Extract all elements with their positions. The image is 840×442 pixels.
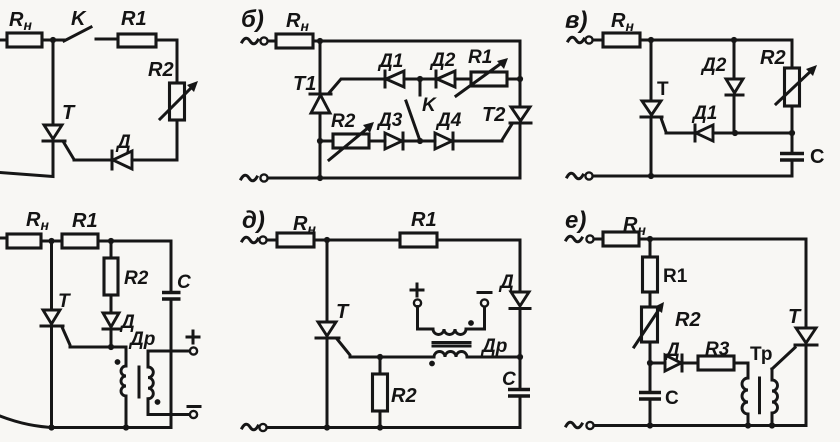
svg-text:Rн: Rн	[26, 209, 49, 233]
wire terminal to Rn	[594, 238, 603, 241]
left vertical wire	[650, 40, 653, 101]
AC source symbol ~ top	[568, 37, 584, 43]
svg-text:K: K	[422, 95, 437, 116]
variable resistor R2	[634, 292, 664, 363]
resistor Rн	[7, 234, 41, 248]
resistor Rн (load)	[7, 33, 42, 47]
left vertical wire	[326, 240, 329, 322]
node junction right top	[517, 76, 523, 82]
node junction C/Д	[647, 360, 653, 366]
wire R2 to Д3	[369, 140, 385, 143]
node junction gate/choke	[108, 344, 114, 350]
diode Д3	[385, 133, 403, 149]
node junction bottom	[648, 173, 654, 179]
left vertical wire	[50, 241, 53, 310]
svg-text:Rн: Rн	[611, 10, 634, 34]
svg-text:Д2: Д2	[429, 50, 456, 71]
capacitor C branch	[162, 241, 181, 428]
svg-text:Rн: Rн	[286, 10, 309, 34]
plus terminal circle	[190, 347, 197, 354]
diode Д1	[695, 125, 713, 141]
terminal circle top	[586, 235, 593, 242]
variable resistor R2	[776, 40, 817, 152]
node junction bottom R2	[377, 424, 383, 430]
minus terminal circle	[481, 299, 488, 306]
minus terminal circle	[190, 411, 197, 418]
top wire to C branch	[98, 240, 171, 243]
wire diode to gate	[74, 159, 112, 162]
switch K stub and blade	[406, 79, 420, 138]
polarity dot lower winding	[429, 361, 435, 367]
svg-text:Др: Др	[128, 329, 155, 350]
terminal circle bottom	[585, 172, 592, 179]
node junction bottom C	[647, 422, 653, 428]
node junction gate/right	[517, 354, 523, 360]
thyristor T	[316, 322, 434, 428]
node junction R2	[377, 354, 383, 360]
diode Д2	[726, 40, 743, 133]
choke core lines	[433, 343, 470, 347]
resistor R2	[104, 241, 118, 295]
resistor Rн	[603, 33, 640, 47]
svg-text:R2: R2	[675, 309, 701, 331]
thyristor T2	[502, 107, 531, 178]
wire terminal to Rn	[267, 239, 277, 242]
svg-text:Rн: Rн	[623, 214, 646, 238]
node junction top Д2	[731, 37, 737, 43]
terminal circle bottom	[586, 422, 593, 429]
variable resistor R2	[160, 81, 198, 120]
node junction top-left	[324, 237, 330, 243]
gate line to right vertical	[467, 356, 520, 359]
resistor R2	[373, 357, 388, 428]
top wire to right side	[313, 40, 520, 43]
svg-text:T: T	[58, 291, 71, 312]
resistor R1	[643, 239, 658, 292]
svg-text:Д: Д	[498, 272, 514, 293]
variable resistor R2	[329, 122, 374, 160]
svg-text:T: T	[657, 79, 669, 100]
AC source symbol ~ bottom	[566, 422, 582, 428]
bottom wire from left edge	[0, 416, 171, 428]
AC source symbol ~ top	[242, 38, 258, 44]
terminal circle top	[260, 37, 267, 44]
terminal circle top	[585, 36, 592, 43]
svg-text:T1: T1	[293, 73, 316, 95]
plus terminal circle	[414, 299, 421, 306]
resistor Rн	[277, 233, 314, 247]
transformer Тр left winding	[742, 378, 748, 426]
svg-text:T: T	[62, 102, 76, 124]
resistor R1	[118, 34, 156, 47]
diode Д	[103, 295, 119, 347]
minus sign	[478, 291, 491, 294]
wire from left edge to Rn	[0, 237, 8, 240]
choke Др upper winding	[418, 307, 485, 335]
choke Др right winding	[148, 351, 190, 415]
node junction left top	[317, 38, 323, 44]
svg-text:R2: R2	[760, 47, 786, 69]
AC source symbol ~ bottom	[241, 175, 257, 181]
resistor Rн	[276, 34, 313, 48]
wire Д4 to T2 gate	[453, 140, 502, 143]
resistor R1	[62, 234, 98, 248]
svg-text:R2: R2	[391, 385, 417, 407]
wire R2 down to bottom	[132, 120, 177, 160]
svg-text:C: C	[810, 146, 824, 168]
terminal circle bottom	[260, 174, 267, 181]
svg-text:Др: Др	[480, 336, 507, 357]
thyristor T	[41, 310, 111, 428]
polarity dot upper winding	[468, 320, 474, 326]
svg-text:C: C	[665, 388, 679, 409]
svg-text:R2: R2	[124, 268, 149, 289]
diode Д	[112, 151, 132, 169]
wire R1 to right corner	[156, 40, 177, 83]
svg-text:Д1: Д1	[691, 103, 717, 124]
diode Д1	[385, 71, 404, 87]
node junction upper K	[417, 76, 423, 82]
transformer Тр right winding	[772, 369, 778, 426]
terminal circle top	[259, 236, 266, 243]
wire terminal to Rn	[593, 39, 603, 42]
wire switch to R1	[96, 38, 118, 41]
svg-text:Rн: Rн	[9, 9, 32, 33]
thyristor T	[641, 101, 695, 176]
thyristor T	[795, 239, 817, 426]
resistor R3	[698, 356, 734, 370]
bottom wire	[267, 426, 520, 429]
svg-text:в): в)	[565, 7, 588, 34]
AC source symbol ~ top	[242, 237, 258, 243]
node junction bottom T	[324, 424, 330, 430]
svg-text:R3: R3	[705, 339, 730, 360]
svg-text:Д2: Д2	[700, 55, 727, 76]
plus sign	[411, 284, 423, 296]
svg-text:R1: R1	[121, 8, 147, 30]
choke Др lower winding on gate line	[434, 352, 467, 357]
switch K blade	[64, 27, 91, 41]
AC source symbol ~ bottom	[567, 173, 583, 179]
svg-text:R1: R1	[468, 47, 492, 68]
wire node to choke	[111, 347, 126, 366]
svg-text:C: C	[177, 272, 191, 293]
choke Др left winding	[121, 366, 126, 396]
node junction bottom left winding	[745, 422, 751, 428]
svg-text:Д4: Д4	[435, 110, 462, 131]
capacitor C	[639, 363, 661, 426]
svg-text:T: T	[336, 301, 350, 323]
wire below T to left edge	[0, 141, 53, 177]
node junction bottom	[317, 175, 323, 181]
wire Rn to node	[42, 39, 64, 42]
wire R3 to transformer	[734, 363, 748, 378]
svg-text:Д: Д	[664, 340, 680, 361]
capacitor C	[508, 390, 530, 428]
node junction bottom T	[48, 424, 54, 430]
wire Д to R3	[682, 362, 698, 365]
svg-text:Д: Д	[115, 132, 131, 153]
transformer core	[758, 378, 761, 413]
svg-text:C: C	[502, 369, 516, 390]
node junction top-left	[648, 37, 654, 43]
node junction	[50, 37, 56, 43]
AC source symbol ~ bottom	[242, 424, 258, 430]
svg-text:Д1: Д1	[377, 51, 403, 72]
wire node to R2	[320, 140, 333, 143]
left vertical wire	[319, 41, 322, 95]
thyristor T1	[310, 79, 385, 178]
svg-text:Rн: Rн	[293, 213, 316, 237]
plus sign	[187, 331, 199, 343]
top wire	[640, 39, 792, 42]
variable resistor R1	[456, 58, 508, 96]
resistor Rн	[603, 232, 639, 246]
wire terminal to Rn	[268, 40, 276, 43]
node junction left	[48, 238, 54, 244]
choke core	[138, 367, 141, 397]
wire left winding to bottom	[125, 396, 128, 428]
svg-text:R1: R1	[663, 266, 688, 287]
gate wire winding to T	[772, 348, 795, 370]
diode Д4	[435, 133, 453, 149]
svg-text:R2: R2	[331, 111, 356, 132]
capacitor C	[780, 154, 804, 177]
bottom wire	[594, 424, 806, 427]
diode Д	[650, 355, 682, 371]
terminal circle bottom	[259, 424, 266, 431]
minus sign	[188, 405, 200, 408]
thyristor T	[43, 40, 74, 160]
node junction bottom winding	[123, 424, 129, 430]
wire Rn to R1	[41, 240, 62, 243]
right vertical wire top	[519, 240, 522, 292]
node junction top	[647, 236, 653, 242]
wire Д2 to R1	[455, 78, 471, 81]
top wire	[314, 239, 520, 242]
AC source symbol ~ top	[566, 236, 582, 242]
wire R1 to right vertical	[507, 78, 520, 81]
node junction R2 top	[108, 238, 114, 244]
node junction lower-left branch	[317, 138, 323, 144]
wire from left edge to Rn	[0, 39, 8, 42]
svg-text:R1: R1	[411, 209, 437, 231]
diode Д	[510, 292, 530, 389]
top wire	[639, 238, 806, 241]
svg-text:Д3: Д3	[376, 110, 403, 131]
node junction bottom right winding	[769, 422, 775, 428]
svg-text:R2: R2	[148, 59, 174, 81]
bottom wire	[268, 177, 520, 180]
diode Д2	[436, 71, 455, 87]
svg-text:е): е)	[565, 207, 586, 234]
wire Д1 to node	[713, 132, 792, 135]
node junction at C top	[789, 130, 795, 136]
svg-text:д): д)	[242, 207, 265, 234]
wire Д3 to node	[403, 140, 435, 143]
svg-text:K: K	[71, 8, 87, 30]
polarity dot right winding	[155, 399, 161, 405]
svg-text:б): б)	[241, 6, 264, 33]
polarity dot left winding	[115, 359, 121, 365]
node junction lower K	[417, 138, 423, 144]
resistor R1	[400, 233, 437, 247]
svg-text:R1: R1	[72, 210, 98, 232]
node junction gate line	[732, 130, 738, 136]
svg-text:T2: T2	[482, 104, 505, 126]
right vertical wire	[519, 41, 522, 107]
svg-text:T: T	[788, 306, 802, 328]
wire Д1 to node	[404, 78, 436, 81]
wire right winding top to plus terminal	[148, 350, 190, 353]
svg-text:Тр: Тр	[750, 344, 773, 365]
bottom wire	[593, 175, 792, 178]
